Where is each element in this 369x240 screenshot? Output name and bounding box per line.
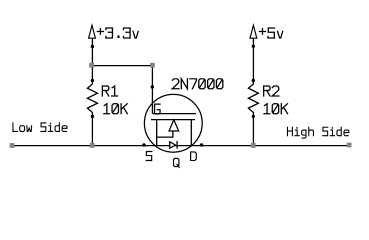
body diode triangle [170,142,176,148]
wire R1 bottom to rail [91,113,93,145]
gate bar [152,113,196,115]
wire R2 bottom to rail [252,113,254,146]
resistor R2 name [264,86,279,96]
channel bar [151,119,195,121]
node VCC5V label +5v [259,28,282,38]
pin junction dot [252,45,255,48]
wire 5v supply to R2 top [252,38,254,83]
resistor R1 value 10K [104,104,128,114]
pin junction dot gate [151,85,154,88]
terminal square left [10,143,15,148]
resistor R2 zigzag [248,83,258,113]
pin junction dot R1 bottom [91,115,94,118]
transistor value 2N7000 [172,79,223,89]
pin dot drain connection [200,143,203,146]
wire branch to gate [92,65,153,67]
label High Side [287,127,348,138]
body diode anode bar [169,141,171,148]
pin label Q [174,158,180,167]
body diode cathode bar [176,141,178,149]
wire 3.3v supply to R1 top [91,38,93,83]
pin junction dot [91,45,94,48]
junction square node gate branch [89,63,94,68]
corner square gate branch [150,63,155,68]
substrate arrow triangle [169,120,179,131]
bulk stem wire [157,131,173,137]
pin dot source connection [142,143,145,146]
label Low Side [13,123,67,131]
transistor Q 2N7000 body circle [144,94,202,152]
pin junction dot R2 bottom [252,115,255,118]
main rail wire [12,145,349,147]
pin label G [155,104,161,114]
junction square rail high [251,143,256,148]
wire gate branch down [151,65,153,113]
resistor R1 name [102,86,117,96]
node VCC3V3 label +3.3v [97,28,138,38]
pin label S [146,152,152,161]
junction square rail low [90,143,95,148]
node VCC3V3 power arrow [89,25,96,38]
terminal square right [347,143,352,148]
node VCC5V power arrow [250,25,257,38]
drain leg [190,120,192,146]
pin label D [191,152,197,161]
resistor R2 value 10K [264,104,288,114]
resistor R1 zigzag [87,83,97,113]
pin junction dot R1 top [91,79,94,82]
pin junction dot R2 top [252,79,255,82]
source leg [156,120,158,146]
